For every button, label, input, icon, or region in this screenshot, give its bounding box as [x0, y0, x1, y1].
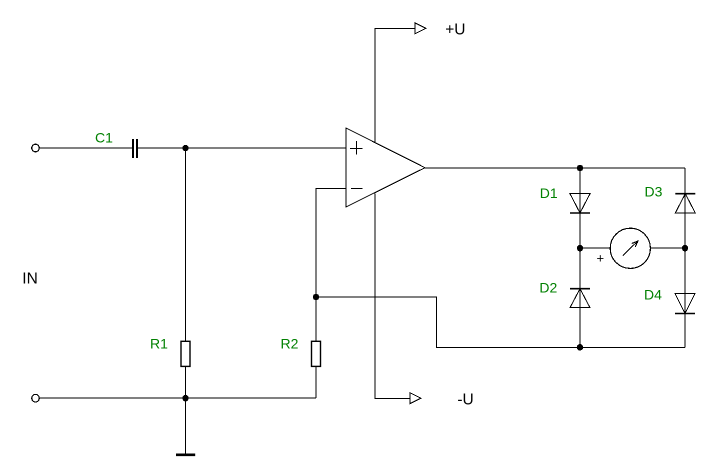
resistor R1 [181, 341, 190, 366]
wire node A down to R1 [185, 148, 187, 341]
wire bottom rail [40, 397, 317, 399]
wire top input to C1 [40, 147, 132, 149]
svg-text:R1: R1 [150, 336, 168, 352]
wire R2 bottom [315, 366, 317, 398]
capacitor C1 [133, 139, 137, 158]
wire bridge right leg lower (through D4) [684, 248, 686, 347]
wire node A to op-amp + input [186, 147, 347, 149]
wire bridge left leg lower (through D2) [579, 248, 581, 347]
svg-text:R2: R2 [281, 336, 299, 352]
node A junction dot [182, 145, 188, 151]
svg-text:D2: D2 [539, 279, 557, 295]
wire op-amp output to bridge top [425, 167, 685, 169]
wire feedback node C to bridge bottom [316, 297, 580, 347]
diode D1 [570, 194, 590, 213]
wire meter to node F [650, 247, 685, 249]
node F right middle junction [682, 245, 688, 251]
node E left middle junction [577, 245, 583, 251]
meter M1 [610, 228, 650, 268]
svg-text:+U: +U [445, 21, 465, 38]
wire R2 top to node C [315, 297, 317, 341]
wire bridge bottom [580, 346, 685, 348]
wire negative supply [375, 194, 410, 399]
svg-text:-U: -U [457, 391, 473, 408]
wire R1 bottom to rail [185, 366, 187, 398]
power arrow -U [410, 393, 421, 404]
diode D2 [570, 289, 590, 308]
ground [176, 398, 195, 455]
node G bridge bottom junction [577, 344, 583, 350]
terminal IN bottom [32, 394, 40, 402]
svg-text:D3: D3 [645, 184, 663, 200]
resistor R2 [312, 341, 321, 366]
diode D3 [675, 194, 695, 213]
power arrow +U [415, 23, 426, 34]
svg-text:D1: D1 [540, 185, 558, 201]
wire positive supply [375, 28, 415, 142]
node D bridge top junction [577, 165, 583, 171]
svg-text:C1: C1 [95, 130, 113, 146]
svg-text:D4: D4 [644, 287, 662, 303]
svg-text:+: + [597, 250, 605, 265]
terminal IN top [32, 144, 40, 152]
wire node E to meter [580, 247, 610, 249]
op-amp U1 [346, 128, 425, 207]
wire bridge right leg upper (through D3) [684, 168, 686, 248]
node B junction dot at ground [182, 395, 188, 401]
diode D4 [675, 294, 695, 314]
node C feedback junction dot [313, 294, 319, 300]
wire bridge left leg upper (through D1) [579, 168, 581, 248]
svg-text:IN: IN [22, 271, 38, 288]
wire C1 to node A [138, 147, 186, 149]
wire node C to op-amp - input [316, 189, 346, 298]
